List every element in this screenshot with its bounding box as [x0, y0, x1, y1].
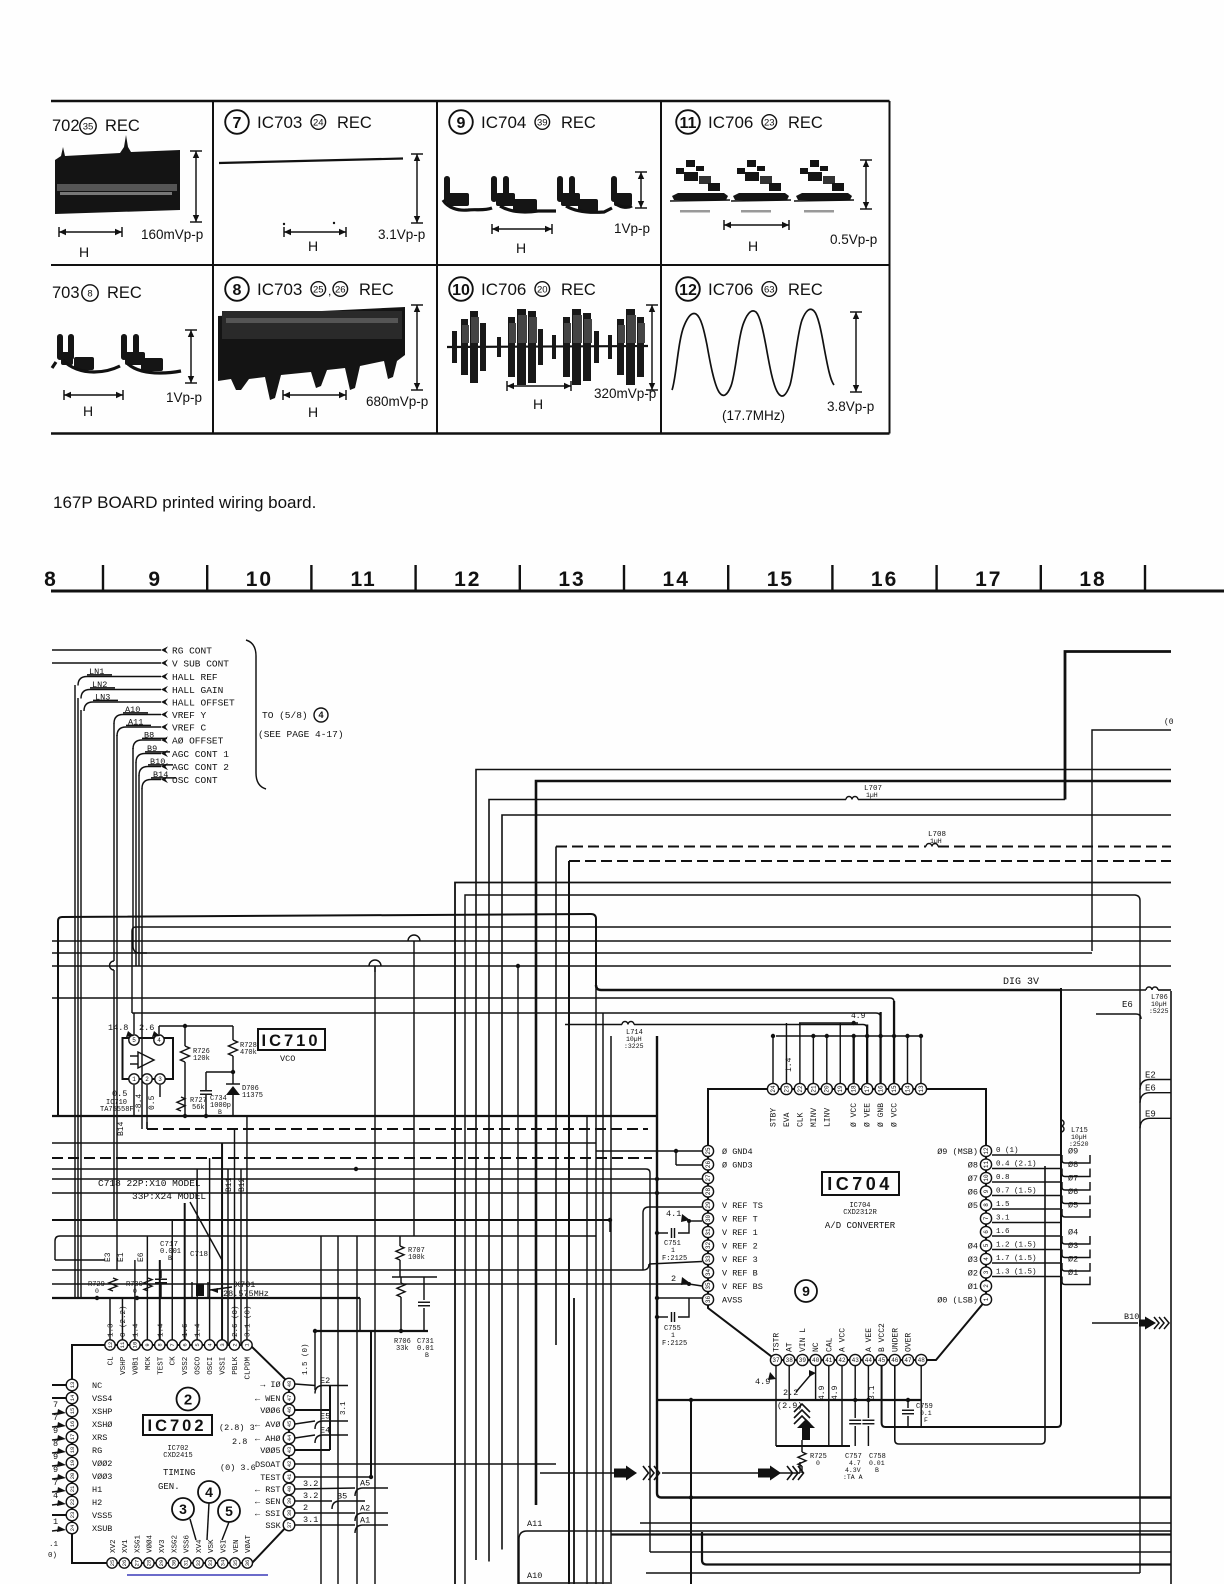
svg-text:-8.4: -8.4	[135, 1094, 144, 1113]
svg-text:14: 14	[904, 1085, 911, 1093]
svg-text:18: 18	[69, 1447, 76, 1454]
svg-text:3.1: 3.1	[996, 1215, 1010, 1223]
svg-text:HALL OFFSET: HALL OFFSET	[172, 698, 235, 709]
svg-text:C718 22P:X10 MODEL: C718 22P:X10 MODEL	[98, 1178, 201, 1189]
inductor L706	[1146, 987, 1158, 990]
ruler scale	[51, 590, 1224, 593]
waveform cell 12 IC706 pin63 REC	[676, 277, 700, 301]
svg-text:VREF C: VREF C	[172, 723, 207, 734]
svg-text:F: F	[924, 1417, 928, 1424]
svg-text:4: 4	[205, 1484, 213, 1500]
svg-text:AGC CONT 1: AGC CONT 1	[172, 749, 229, 760]
svg-text:0.5Vp-p: 0.5Vp-p	[830, 232, 877, 247]
wire VIN stem	[801, 1440, 803, 1452]
svg-text:LINV: LINV	[823, 1108, 832, 1127]
svg-text:Ø VCC: Ø VCC	[850, 1103, 859, 1127]
op IC702 outline	[72, 1345, 289, 1563]
svg-text:VSI: VSI	[221, 1539, 229, 1553]
svg-text:1.3: 1.3	[108, 1323, 116, 1337]
wire dashed y1129	[146, 1122, 148, 1129]
svg-text:Ø3: Ø3	[1068, 1241, 1078, 1251]
wire bottom y1497 thick	[657, 1036, 1171, 1498]
wire vertical B11	[227, 1169, 229, 1345]
wire y1220	[52, 1219, 610, 1221]
node 5 circle	[218, 1500, 240, 1522]
svg-text:Ø8: Ø8	[968, 1161, 978, 1171]
svg-text:A VCC: A VCC	[839, 1328, 848, 1352]
svg-text:0.5: 0.5	[148, 1095, 157, 1110]
svg-text:IC706: IC706	[481, 280, 526, 299]
wire vertical x587	[586, 1116, 588, 1584]
svg-text:23: 23	[69, 1512, 76, 1519]
connector stub HALL OFFSET	[161, 698, 168, 705]
svg-text:12: 12	[983, 1147, 990, 1155]
svg-text:REC: REC	[561, 281, 596, 299]
svg-text:4: 4	[157, 1037, 161, 1044]
svg-text:2.6: 2.6	[139, 1023, 154, 1033]
svg-text:CAL: CAL	[825, 1337, 834, 1352]
svg-text:Ø7: Ø7	[1068, 1174, 1078, 1184]
svg-text:REC: REC	[788, 281, 823, 299]
svg-text:PBLK: PBLK	[232, 1356, 240, 1375]
svg-text:13: 13	[558, 568, 585, 591]
blue scan artifact line	[127, 1574, 268, 1576]
svg-text:11: 11	[350, 568, 376, 591]
svg-text:Ø3: Ø3	[968, 1255, 978, 1265]
IC702 top pins 12-1	[105, 1340, 115, 1350]
waveform cell 9 IC704 pin39 REC	[449, 110, 473, 134]
svg-text:17: 17	[864, 1085, 871, 1093]
wire pin46 y1444	[895, 1166, 1045, 1444]
svg-text:10: 10	[246, 568, 273, 591]
svg-text:4.3V: 4.3V	[845, 1467, 861, 1474]
wire IC710 top rail	[132, 1012, 876, 1014]
svg-text:9: 9	[53, 1426, 58, 1436]
svg-text:Ø2: Ø2	[968, 1269, 978, 1279]
svg-text:20: 20	[69, 1473, 76, 1480]
wire thick y1331	[315, 1330, 428, 1332]
svg-text:A5: A5	[360, 1479, 370, 1489]
wire IC704 bottom rail	[657, 1399, 921, 1401]
svg-text:7: 7	[983, 1216, 990, 1220]
svg-text:5: 5	[983, 1243, 990, 1247]
wire IC704 pin7 out	[992, 1222, 1062, 1224]
svg-text:1: 1	[671, 1247, 675, 1254]
wire IC704 pin4 out	[992, 1262, 1062, 1264]
svg-text:12: 12	[454, 568, 481, 591]
svg-text:4.7: 4.7	[849, 1460, 861, 1467]
wire y998	[52, 997, 890, 999]
svg-text:25: 25	[109, 1560, 116, 1567]
wire vertical x611	[610, 1036, 612, 1584]
wire y1169	[52, 1168, 646, 1170]
svg-text:F:2125: F:2125	[662, 1340, 687, 1348]
svg-text:VCO: VCO	[280, 1054, 295, 1064]
wire vertical x375	[374, 966, 376, 1584]
IC702 bottom pins 25-36	[107, 1558, 117, 1568]
svg-text:100k: 100k	[408, 1254, 425, 1262]
svg-text:TA75558F: TA75558F	[100, 1106, 134, 1114]
svg-text:← WEN: ← WEN	[255, 1394, 281, 1404]
wire IC702 pin42 dsoat	[295, 1463, 556, 1465]
wire IC702 pin40 A5	[295, 1488, 355, 1489]
svg-text:(2.8) 3: (2.8) 3	[219, 1423, 255, 1433]
svg-text:1.6: 1.6	[996, 1228, 1010, 1236]
svg-text:0: 0	[816, 1460, 820, 1467]
wire bus C y800 with inductor L707	[489, 800, 846, 1562]
svg-text:H: H	[308, 238, 318, 254]
svg-text:27: 27	[133, 1560, 140, 1567]
wire vertical x321	[320, 1236, 322, 1584]
svg-text:AT: AT	[786, 1342, 795, 1352]
svg-text:B: B	[168, 1255, 172, 1262]
svg-text:XV4: XV4	[196, 1539, 204, 1553]
svg-text:6: 6	[181, 1343, 188, 1346]
svg-text:1.5: 1.5	[996, 1201, 1010, 1209]
svg-text:A2: A2	[360, 1504, 370, 1514]
svg-text:8: 8	[44, 568, 58, 591]
svg-text:REC: REC	[337, 114, 372, 132]
svg-text:17: 17	[69, 1434, 76, 1441]
wire vertical x574	[573, 1298, 575, 1584]
inductor L707	[846, 797, 858, 800]
svg-text:15: 15	[891, 1085, 898, 1093]
connector stub V SUB CONT	[161, 659, 168, 666]
IC704 bottom pins 37-48	[770, 1354, 781, 1365]
svg-text:3.1 (0): 3.1 (0)	[244, 1305, 252, 1337]
svg-text:23: 23	[783, 1085, 790, 1093]
svg-text:21: 21	[69, 1485, 76, 1492]
svg-text:2: 2	[671, 1274, 676, 1284]
svg-text:11375: 11375	[242, 1092, 263, 1100]
svg-text:31: 31	[705, 1228, 712, 1236]
wire IC702 pin41 test	[295, 1476, 371, 1478]
svg-text:CL: CL	[108, 1356, 116, 1366]
svg-text:RG: RG	[92, 1446, 102, 1456]
svg-text:2: 2	[145, 1076, 149, 1083]
svg-text:16: 16	[69, 1421, 76, 1428]
wire bottom y1552	[650, 1551, 1171, 1553]
svg-text:5: 5	[132, 1037, 136, 1044]
wire IC710 pin1 down	[133, 1085, 135, 1116]
svg-text:8: 8	[983, 1203, 990, 1207]
svg-text:1: 1	[983, 1297, 990, 1301]
svg-text:1Vp-p: 1Vp-p	[166, 390, 202, 405]
IC704 right pins 12-1	[980, 1145, 991, 1156]
svg-text:VIN L: VIN L	[799, 1328, 808, 1352]
branch vertical x414 with hop	[408, 935, 420, 941]
svg-text::TA A: :TA A	[843, 1474, 863, 1481]
svg-text:19: 19	[837, 1085, 844, 1093]
svg-text:VSS6: VSS6	[184, 1534, 192, 1553]
connector stub AGC CONT 1	[161, 750, 168, 757]
svg-text:XSG2: XSG2	[171, 1535, 179, 1553]
svg-text:H: H	[516, 240, 526, 256]
svg-text:9: 9	[983, 1189, 990, 1193]
svg-text:VSK: VSK	[208, 1539, 216, 1553]
svg-text:4: 4	[318, 710, 323, 720]
svg-text:33: 33	[207, 1560, 214, 1567]
svg-text:8: 8	[233, 282, 242, 299]
svg-text:Ø6: Ø6	[968, 1188, 978, 1198]
svg-text:120k: 120k	[193, 1055, 210, 1063]
svg-text:680mVp-p: 680mVp-p	[366, 394, 428, 409]
svg-text:A VEE: A VEE	[865, 1328, 874, 1352]
connector stub AØ OFFSET	[161, 736, 168, 743]
svg-text:VREF Y: VREF Y	[172, 710, 207, 721]
svg-text:E1: E1	[117, 1252, 126, 1262]
svg-text:470k: 470k	[240, 1049, 257, 1057]
wire bus D y815	[502, 815, 1171, 1550]
wire IC704 bottom pin drops	[775, 1366, 777, 1446]
wire vertical x357	[356, 1236, 358, 1584]
wire y1179 pin27 feed	[52, 1178, 657, 1180]
svg-text:OSCI: OSCI	[207, 1357, 215, 1375]
capacitor C759	[907, 1400, 909, 1408]
svg-text:9: 9	[148, 568, 162, 591]
svg-text:40: 40	[286, 1486, 293, 1493]
svg-text:4.9: 4.9	[755, 1377, 770, 1387]
connector stub RG CONT	[161, 646, 168, 653]
svg-text:CK: CK	[170, 1356, 178, 1366]
IC702 left pins	[66, 1379, 78, 1391]
svg-text:22: 22	[69, 1499, 76, 1506]
svg-text:31: 31	[183, 1559, 190, 1566]
svg-text:CXD2312R: CXD2312R	[843, 1209, 877, 1217]
svg-text:Ø5: Ø5	[968, 1201, 978, 1211]
svg-text:13: 13	[918, 1085, 925, 1093]
wire IC704 pin34	[522, 1269, 643, 1271]
wire IC702 pin44 E4	[295, 1435, 315, 1438]
svg-text:39: 39	[286, 1498, 293, 1505]
svg-text:5: 5	[225, 1503, 233, 1519]
svg-text:Ø9: Ø9	[1068, 1147, 1078, 1157]
svg-text:TO (5/8): TO (5/8)	[262, 710, 308, 721]
svg-text:30: 30	[170, 1560, 177, 1567]
svg-text:45: 45	[878, 1357, 886, 1364]
svg-text:(0: (0	[1164, 718, 1174, 727]
svg-text:VSHP: VSHP	[120, 1356, 128, 1375]
pointer 2.2 to pin40	[796, 1372, 813, 1392]
svg-text:12: 12	[107, 1342, 114, 1349]
svg-text:33: 33	[705, 1255, 712, 1263]
wire IC710 pin4 up	[158, 1026, 160, 1034]
wire IC702 pin48 E2	[295, 1384, 315, 1386]
capacitor C757	[854, 1400, 856, 1418]
wire IC710 bottom bus	[52, 1115, 657, 1117]
wire x371 test vertical	[370, 1331, 372, 1477]
svg-text:37: 37	[772, 1357, 780, 1364]
svg-text:H: H	[308, 404, 318, 420]
svg-text:1: 1	[132, 1076, 136, 1083]
svg-text:B11: B11	[225, 1177, 234, 1192]
IC704 top pins 24-13	[767, 1083, 778, 1094]
node test point 9	[795, 1280, 817, 1302]
connector stub HALL GAIN	[161, 686, 168, 693]
svg-text:UNDER: UNDER	[891, 1328, 900, 1352]
svg-text:37: 37	[286, 1522, 293, 1529]
wire IC710 pin3 down	[159, 1085, 161, 1097]
label IC710 box	[258, 1029, 325, 1050]
svg-text:12: 12	[679, 282, 697, 299]
svg-text:Ø VCC: Ø VCC	[891, 1103, 900, 1127]
svg-text:A11: A11	[527, 1519, 542, 1529]
svg-text:10µH: 10µH	[1151, 1001, 1167, 1008]
wire IC702 pin38 A2	[295, 1512, 355, 1514]
svg-text:19: 19	[69, 1460, 76, 1467]
svg-text:(17.7MHz): (17.7MHz)	[722, 408, 785, 423]
svg-text:3: 3	[219, 1343, 226, 1346]
svg-text:320mVp-p: 320mVp-p	[594, 386, 656, 401]
wire B14 vertical	[141, 788, 143, 1129]
svg-text:10: 10	[452, 282, 470, 299]
svg-text:39: 39	[799, 1357, 807, 1364]
wire node3 to pin	[190, 1519, 196, 1540]
wire bus A y770	[476, 770, 1171, 1561]
wire y927	[132, 927, 1171, 1013]
svg-text:3: 3	[158, 1076, 162, 1083]
svg-text:7: 7	[53, 1413, 58, 1423]
svg-text:0 (2.2): 0 (2.2)	[120, 1305, 128, 1337]
svg-text:0.1: 0.1	[920, 1410, 932, 1417]
svg-text:(2.9): (2.9)	[777, 1401, 803, 1411]
svg-text:RG CONT: RG CONT	[172, 646, 212, 657]
wire IC704 pin36 avss	[657, 1297, 702, 1299]
svg-text:11: 11	[680, 115, 697, 132]
svg-text:3.1: 3.1	[303, 1515, 318, 1525]
wire B9 vertical	[135, 762, 137, 966]
wire IC704 pin28	[657, 1192, 702, 1194]
svg-text:32: 32	[705, 1242, 712, 1250]
svg-text:0.5: 0.5	[112, 1089, 127, 1099]
svg-text:46: 46	[286, 1407, 293, 1414]
svg-text:Ø1: Ø1	[1068, 1268, 1078, 1278]
capacitor C751	[657, 1232, 668, 1234]
wire y941	[52, 940, 1171, 942]
svg-text:Ø GND4: Ø GND4	[722, 1147, 753, 1157]
svg-text:V REF T: V REF T	[722, 1215, 758, 1225]
arrow VIN L chevrons up	[794, 1416, 810, 1424]
wire IC704 pin29	[643, 1207, 702, 1270]
wire A11 vertical	[116, 735, 118, 1270]
svg-text:38: 38	[286, 1510, 293, 1517]
wire bus H y895 corner down right	[465, 895, 1140, 1584]
svg-text:VØØ2: VØØ2	[92, 1459, 112, 1469]
svg-text:Ø8: Ø8	[1068, 1160, 1078, 1170]
svg-text:Ø GNB: Ø GNB	[877, 1103, 886, 1127]
node 2 circle	[177, 1388, 200, 1411]
svg-text:14: 14	[663, 568, 690, 591]
svg-text:40: 40	[812, 1357, 820, 1364]
wire bottom y1573	[646, 1572, 1140, 1574]
wire bottom y1534	[611, 1533, 1171, 1535]
wire A10 vertical	[113, 723, 115, 961]
svg-text:SSK: SSK	[265, 1521, 281, 1531]
wire LN3 vertical	[80, 710, 82, 1297]
svg-text:47: 47	[904, 1357, 912, 1364]
svg-text:HALL GAIN: HALL GAIN	[172, 685, 223, 696]
svg-text:1: 1	[671, 1332, 675, 1339]
waveform table grid	[51, 100, 890, 102]
svg-text:H2: H2	[92, 1498, 102, 1508]
svg-text:42: 42	[286, 1461, 293, 1468]
waveform cell 7 IC703 pin24 REC	[225, 110, 249, 134]
svg-text:V REF BS: V REF BS	[722, 1282, 763, 1292]
svg-text:1µH: 1µH	[866, 792, 878, 799]
svg-text:33k: 33k	[396, 1345, 409, 1353]
svg-text:28: 28	[705, 1188, 712, 1196]
wire vertical B12	[240, 1169, 242, 1345]
capacitor C734	[205, 1072, 207, 1090]
svg-text:REC: REC	[105, 117, 140, 135]
svg-text:NC: NC	[812, 1342, 821, 1352]
svg-text:XV1: XV1	[122, 1539, 130, 1553]
svg-text:OSC CONT: OSC CONT	[172, 775, 218, 786]
svg-text:Ø4: Ø4	[968, 1242, 978, 1252]
svg-text:AØ OFFSET: AØ OFFSET	[172, 736, 224, 747]
svg-text:← SEN: ← SEN	[255, 1497, 281, 1507]
svg-text:XSG1: XSG1	[134, 1534, 142, 1553]
svg-text:IC704: IC704	[481, 113, 526, 132]
svg-text:0.4 (2.1): 0.4 (2.1)	[996, 1161, 1037, 1169]
brace to page 4-17	[246, 640, 266, 789]
svg-text:36: 36	[705, 1296, 712, 1304]
svg-text:33P:X24 MODEL: 33P:X24 MODEL	[132, 1191, 206, 1202]
wire IC704 pin3 out	[992, 1276, 1062, 1278]
svg-text:3.2: 3.2	[303, 1479, 318, 1489]
wire IC704 top pin rails	[776, 1035, 921, 1037]
svg-text:160mVp-p: 160mVp-p	[141, 227, 203, 242]
svg-text:13: 13	[69, 1382, 76, 1389]
svg-text:44: 44	[286, 1434, 293, 1441]
svg-text:10µH: 10µH	[1071, 1134, 1087, 1141]
svg-text:26: 26	[121, 1560, 128, 1567]
svg-text:38: 38	[786, 1357, 794, 1364]
svg-text:3.1: 3.1	[868, 1385, 877, 1400]
svg-text:36: 36	[244, 1560, 251, 1567]
svg-text:3.2: 3.2	[303, 1491, 318, 1501]
svg-text:3.1: 3.1	[340, 1401, 348, 1415]
svg-text:18: 18	[1079, 568, 1106, 591]
svg-text:43: 43	[852, 1357, 860, 1364]
svg-text:8: 8	[87, 289, 92, 300]
svg-text:0.01: 0.01	[869, 1460, 885, 1467]
svg-text:4.9: 4.9	[818, 1385, 827, 1400]
IC710 pins	[129, 1035, 139, 1045]
svg-text:Ø1: Ø1	[968, 1282, 978, 1292]
svg-text:10: 10	[132, 1342, 139, 1349]
svg-text:4: 4	[983, 1257, 990, 1261]
svg-text:4: 4	[53, 1491, 58, 1501]
svg-text:34: 34	[219, 1559, 226, 1566]
svg-text:EVA: EVA	[783, 1112, 792, 1127]
wire LN1 vertical	[74, 685, 76, 1297]
svg-text:2.8: 2.8	[232, 1437, 247, 1447]
node 3 circle	[172, 1498, 194, 1520]
svg-text:VØØ3: VØØ3	[92, 1472, 112, 1482]
svg-text:8: 8	[53, 1439, 58, 1449]
wire IC702 pin43 thick	[295, 1449, 330, 1451]
wire bus B y781 thick	[536, 781, 1171, 1505]
svg-text:.1: .1	[49, 1541, 59, 1549]
svg-text:TSTR: TSTR	[773, 1333, 782, 1352]
svg-text:V REF TS: V REF TS	[722, 1201, 763, 1211]
svg-text:11: 11	[983, 1161, 990, 1169]
svg-text:H: H	[79, 244, 89, 260]
wire y951	[52, 952, 1092, 954]
svg-text:9: 9	[457, 115, 466, 132]
svg-text:VSSI: VSSI	[220, 1357, 228, 1375]
